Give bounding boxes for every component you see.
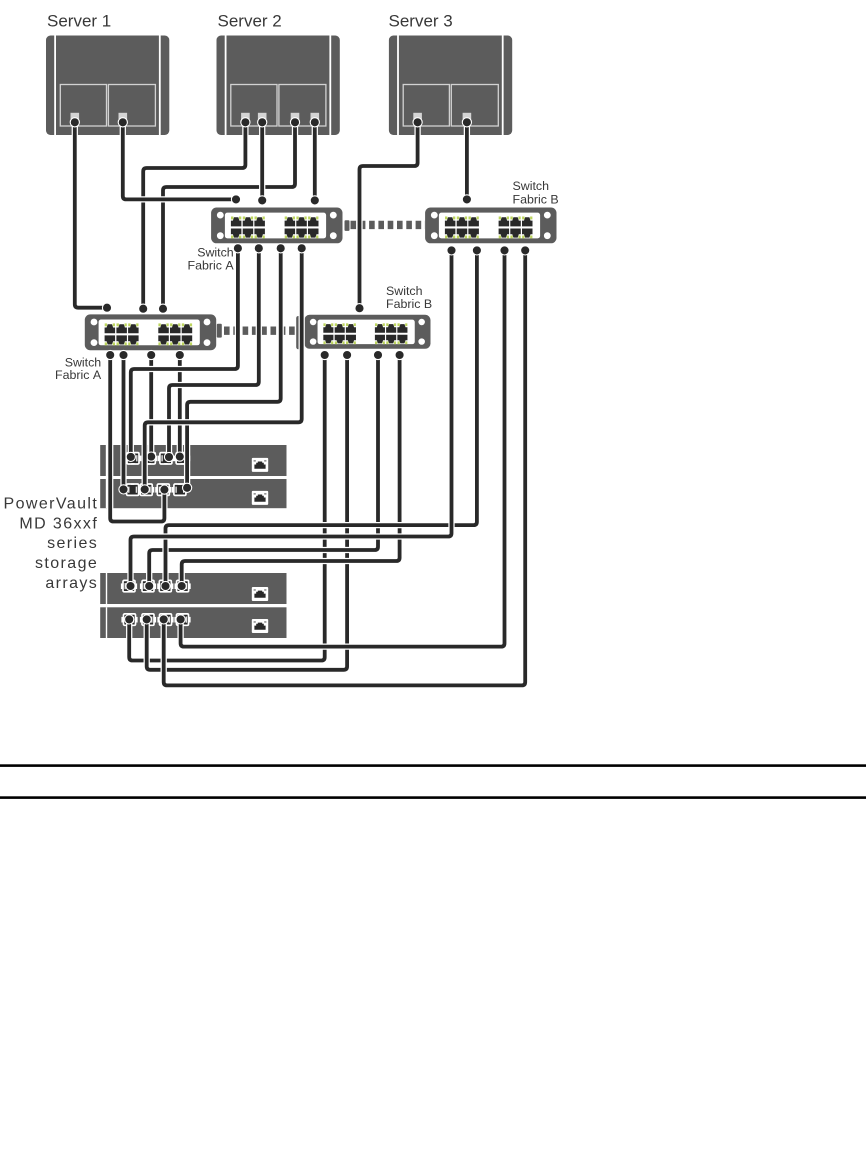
svg-text:Switch: Switch bbox=[386, 284, 423, 298]
page rule upper bbox=[0, 764, 866, 767]
svg-text:Server 3: Server 3 bbox=[389, 12, 453, 31]
server 1 port 2 bbox=[119, 113, 128, 122]
switch fabric B (top) bbox=[425, 208, 556, 244]
ISL dashed link fabric A/B bottom pair bbox=[217, 316, 301, 349]
switch fabric B (bottom) bbox=[304, 315, 430, 349]
server 1 HBA card 1 bbox=[60, 85, 106, 127]
storage controller 1a FC port 3 bbox=[158, 452, 174, 465]
storage controller 2a FC port 2 bbox=[140, 580, 156, 593]
page rule lower bbox=[0, 796, 866, 799]
server 1 port 1 bbox=[71, 113, 80, 122]
storage array 1 top controller shelf bbox=[100, 445, 286, 476]
svg-text:Server 2: Server 2 bbox=[218, 12, 282, 31]
wire server2 port1 to switch-A-bottom bbox=[139, 118, 250, 314]
wire switch-B-bottom port2 to array2-ctrl-b port2 bbox=[142, 350, 352, 669]
server 2 HBA card 2 bbox=[279, 85, 326, 127]
wire switch-A-bottom port4 to array1-ctrl-a port4 bbox=[175, 350, 184, 461]
server 2 port 4 bbox=[311, 113, 320, 122]
server 2 port 2 bbox=[258, 113, 267, 122]
wire switch-A-top port1 to array1-ctrl-a port1 bbox=[126, 244, 242, 462]
server 2 body bbox=[217, 36, 340, 136]
wire switch-B-top port2 to array2-ctrl-a port3 bbox=[161, 246, 482, 591]
wire server3 port2 to switch-B-top bbox=[462, 118, 471, 204]
storage controller 2a management port bbox=[252, 587, 268, 601]
ISL dashed link fabric A/B top pair bbox=[345, 220, 426, 231]
wire switch-B-top port1 to array2-ctrl-a port1 bbox=[126, 246, 456, 591]
server 3 port 2 bbox=[463, 113, 472, 122]
storage controller 1b FC port 4 bbox=[172, 483, 188, 496]
server 3 HBA card 2 bbox=[451, 85, 498, 127]
wire switch-B-top port4 to array2-ctrl-b port3 bbox=[159, 246, 530, 686]
storage controller 2a FC port 4 bbox=[175, 580, 191, 593]
server 2 HBA card 1 bbox=[231, 85, 277, 127]
storage array 2 bottom controller shelf bbox=[100, 607, 286, 638]
storage controller 2b management port bbox=[252, 619, 268, 633]
storage controller 1a FC port 4 bbox=[174, 452, 190, 465]
wire server2 port2 to switch-A-top bbox=[258, 118, 267, 205]
wire switch-A-top port2 to array1-ctrl-a port3 bbox=[164, 244, 263, 462]
storage array 2 top controller shelf bbox=[100, 573, 286, 604]
wire switch-A-bottom port2 to array1-ctrl-b port1 bbox=[119, 350, 128, 494]
storage controller 1a FC port 1 bbox=[125, 452, 141, 465]
wire switch-A-top port3 to array1-ctrl-b port4 bbox=[183, 244, 286, 493]
wire server3 port1 to switch-B-bottom bbox=[355, 118, 422, 313]
wire switch-A-bottom port3 to array1-ctrl-a port2 bbox=[147, 350, 156, 461]
svg-text:Switch: Switch bbox=[197, 245, 234, 259]
svg-text:Fabric A: Fabric A bbox=[188, 259, 235, 273]
storage controller 1b FC port 2 bbox=[138, 483, 154, 496]
wire switch-B-bottom port1 to array2-ctrl-b port1 bbox=[125, 350, 330, 660]
svg-text:Switch: Switch bbox=[513, 179, 550, 193]
svg-text:Fabric B: Fabric B bbox=[386, 297, 432, 311]
svg-text:Server 1: Server 1 bbox=[47, 12, 111, 31]
wire switch-A-top port4 to array1-ctrl-b port2 bbox=[140, 244, 306, 494]
wire server2 port4 to switch-A-top bbox=[310, 118, 319, 205]
wire switch-B-bottom port3 to array2-ctrl-a port2 bbox=[145, 350, 383, 590]
storage controller 2a FC port 3 bbox=[157, 580, 173, 593]
svg-text:Fabric A: Fabric A bbox=[55, 368, 102, 382]
wire switch-B-bottom port4 to array2-ctrl-a port4 bbox=[177, 350, 404, 590]
storage controller 1b FC port 3 bbox=[155, 483, 171, 496]
svg-text:Fabric B: Fabric B bbox=[513, 192, 559, 206]
wire server1 port1 to switch-A-bottom bbox=[70, 118, 111, 313]
wire server2 port3 to switch-A-bottom bbox=[158, 118, 299, 314]
server 2 port 1 bbox=[241, 113, 250, 122]
storage controller 1a FC port 2 bbox=[141, 452, 157, 465]
storage controller 2b FC port 3 bbox=[157, 613, 173, 626]
server 1 body bbox=[46, 36, 169, 136]
server 2 port 3 bbox=[291, 113, 300, 122]
server 3 body bbox=[389, 36, 512, 136]
wire server1 port2 to switch-A-top bbox=[118, 118, 240, 204]
wire switch-B-top port3 to array2-ctrl-b port4 bbox=[176, 246, 509, 647]
switch fabric A (top) bbox=[211, 208, 342, 244]
wire switch-A-bottom port1 to array1-ctrl-b port3 bbox=[106, 350, 169, 521]
storage controller 1b FC port 1 bbox=[125, 483, 141, 496]
storage controller 2b FC port 1 bbox=[121, 613, 137, 626]
server 1 HBA card 2 bbox=[108, 85, 155, 127]
storage array 1 bottom controller shelf bbox=[100, 479, 286, 508]
server 3 port 1 bbox=[413, 113, 422, 122]
storage controller 1b management port bbox=[252, 491, 268, 505]
storage controller 1a management port bbox=[252, 458, 268, 472]
server 3 HBA card 1 bbox=[403, 85, 449, 127]
storage controller 2b FC port 2 bbox=[140, 613, 156, 626]
storage controller 2a FC port 1 bbox=[121, 580, 137, 593]
switch fabric A (bottom) bbox=[85, 314, 216, 350]
storage controller 2b FC port 4 bbox=[174, 613, 190, 626]
